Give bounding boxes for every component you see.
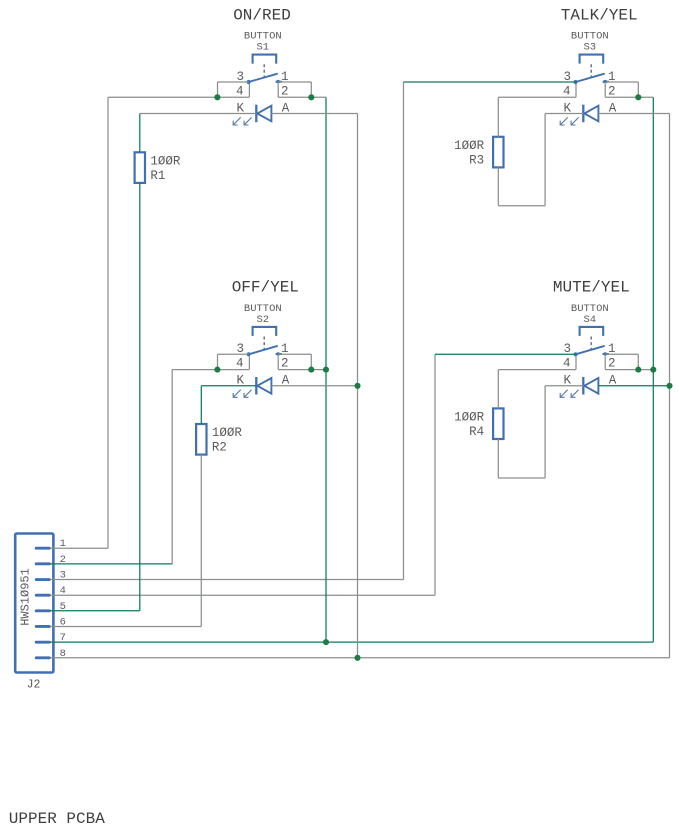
wire S4 pin3 long lead <box>435 353 576 355</box>
wire S2 pin4 stub <box>248 356 250 369</box>
wire S2 pin1 drop <box>310 354 312 369</box>
wire S4 pin1 drop <box>637 354 639 369</box>
wire S1 pin2 stub <box>277 84 279 97</box>
resistor R2 body <box>196 424 206 455</box>
svg-text:2: 2 <box>281 84 289 98</box>
svg-text:S3: S3 <box>583 42 596 54</box>
wire S3 LED anode row <box>598 113 669 115</box>
svg-text:2: 2 <box>608 84 616 98</box>
connector J2 pin 1 bar <box>36 547 49 550</box>
junction anode riser at J2 pin8 row <box>354 655 360 661</box>
svg-text:R2: R2 <box>212 441 227 455</box>
svg-text:S4: S4 <box>583 314 596 326</box>
wire S4 LED anode row <box>598 385 669 387</box>
svg-text:1ØØR: 1ØØR <box>454 139 485 153</box>
wire S3 pin1 drop <box>637 82 639 97</box>
LED of S4 (MUTE/YEL) <box>560 377 598 397</box>
svg-text:HWS1Ø951: HWS1Ø951 <box>19 568 33 626</box>
connector J2 pin 2 bar <box>36 562 49 565</box>
svg-text:R4: R4 <box>469 425 484 439</box>
pushbutton switch S4 <box>574 327 609 357</box>
wire J2 pin4 to riser <box>50 594 435 596</box>
pushbutton switch S3 <box>574 55 609 85</box>
junction S1 pins3-4 <box>214 94 220 100</box>
wire S3 pin3 long lead <box>404 81 576 83</box>
wire S2 LED anode row <box>271 385 357 387</box>
wire J2 pin1 to riser <box>50 547 108 549</box>
wire S2 pin1 lead <box>278 353 311 355</box>
connector J2 pin 5 bar <box>36 609 49 612</box>
wire S4 pin4 stub <box>575 356 577 369</box>
resistor R4 body <box>493 408 503 439</box>
svg-text:R1: R1 <box>150 169 165 183</box>
svg-text:TALK/YEL: TALK/YEL <box>561 6 638 24</box>
svg-text:R3: R3 <box>469 154 484 168</box>
wire J2 pin7 bus <box>50 641 653 643</box>
wire S1 pins1-2 row <box>278 96 326 98</box>
svg-text:J2: J2 <box>27 679 41 692</box>
wire J2 pin3 to riser <box>50 579 404 581</box>
wire R4 top lead <box>497 370 499 409</box>
wire S3 LED cathode row <box>545 113 583 115</box>
wire S4 cathode riser <box>544 386 546 478</box>
svg-text:1ØØR: 1ØØR <box>454 411 485 425</box>
wire S2 LED cathode row <box>201 385 256 387</box>
wire S2 pin3 drop <box>217 354 219 369</box>
wire S2 pin3 lead <box>218 353 249 355</box>
wire riser x140 up to R1 <box>139 183 141 611</box>
svg-text:1ØØR: 1ØØR <box>150 154 181 168</box>
wire S1 pin3 lead <box>218 81 249 83</box>
junction S2 row to bus x326 <box>323 367 329 373</box>
wire S1 pin4 stub <box>248 84 250 97</box>
wire J2 pin5 to riser <box>50 610 140 612</box>
svg-text:4: 4 <box>236 357 244 371</box>
pushbutton switch S2 <box>247 327 282 357</box>
wire riser x201 up to R2 <box>200 455 202 627</box>
junction S2 pins3-4 <box>214 367 220 373</box>
wire S1 junction row left <box>108 96 249 98</box>
wire S4 pins1-2 row <box>605 369 653 371</box>
junction S2 anode to riser <box>354 383 360 389</box>
wire S1 pin1 lead <box>278 81 311 83</box>
connector J2 pin 6 bar <box>36 625 49 628</box>
svg-text:4: 4 <box>563 357 571 371</box>
wire riser x403 up to S3 row <box>403 82 405 580</box>
wire R3 bottom lead <box>497 167 499 205</box>
wire anode riser x357 <box>357 114 359 658</box>
wire riser x435 up to S4 row <box>434 354 436 595</box>
wire J2 pin6 to riser <box>50 626 201 628</box>
wire S2 pins1-2 row <box>278 369 326 371</box>
wire S3 cathode riser <box>544 114 546 206</box>
svg-text:4: 4 <box>563 84 571 98</box>
svg-text:UPPER PCBA: UPPER PCBA <box>9 810 105 828</box>
LED of S3 (TALK/YEL) <box>560 105 598 125</box>
wire S3 pin2 stub <box>604 84 606 97</box>
junction S1 pins1-2 <box>308 94 314 100</box>
connector J2 pin 8 bar <box>36 656 49 659</box>
resistor R3 body <box>493 137 503 168</box>
svg-text:1ØØR: 1ØØR <box>212 426 243 440</box>
wire R4 bottom lead <box>497 439 499 478</box>
junction bus x326 at J2 pin7 row <box>323 639 329 645</box>
wire R4 bottom row <box>498 477 545 479</box>
wire S3 pin4 stub <box>575 84 577 97</box>
resistor R1 body <box>135 152 145 183</box>
pushbutton switch S1 <box>247 55 282 85</box>
svg-text:4: 4 <box>236 84 244 98</box>
svg-text:2: 2 <box>281 357 289 371</box>
wire S4 pin4 row to R4 <box>498 369 576 371</box>
junction S4 pins1-2 <box>635 367 641 373</box>
junction S4 anode to riser <box>666 383 672 389</box>
LED of S1 (ON/RED) <box>233 105 271 125</box>
wire J2 pin8 bus <box>50 657 670 659</box>
connector J2 pin 7 bar <box>36 641 49 644</box>
wire S1 LED anode row <box>271 113 357 115</box>
wire R1 top lead <box>139 114 141 153</box>
wire S2 pin2 stub <box>277 356 279 369</box>
wire S4 pin1 lead <box>605 353 638 355</box>
wire S4 pin2 stub <box>604 356 606 369</box>
svg-text:2: 2 <box>608 357 616 371</box>
wire R3 bottom row <box>498 205 545 207</box>
wire R3 top lead <box>497 97 499 137</box>
junction S2 pins1-2 <box>308 367 314 373</box>
svg-text:ON/RED: ON/RED <box>233 6 291 24</box>
wire bus riser x326 <box>325 97 327 642</box>
svg-text:MUTE/YEL: MUTE/YEL <box>553 278 630 296</box>
svg-text:S1: S1 <box>256 42 269 54</box>
svg-text:OFF/YEL: OFF/YEL <box>232 278 299 296</box>
wire riser x172 up to S2 row <box>171 370 173 564</box>
connector J2 body <box>15 534 53 673</box>
wire S3 pins1-2 row <box>605 96 653 98</box>
junction S3 pins1-2 <box>635 94 641 100</box>
wire S1 pin3 drop <box>217 82 219 97</box>
wire S2 junction row left <box>172 369 249 371</box>
LED of S2 (OFF/YEL) <box>233 377 271 397</box>
wire R2 top lead <box>200 386 202 424</box>
junction S4 row to bus x653 <box>650 367 656 373</box>
wire anode riser x670 <box>669 114 671 658</box>
wire S1 pin1 drop <box>310 82 312 97</box>
wire S3 pin4 row to R3 <box>498 96 576 98</box>
svg-text:S2: S2 <box>256 314 269 326</box>
connector J2 pin 4 bar <box>36 594 49 597</box>
connector J2 pin 3 bar <box>36 578 49 581</box>
wire S4 LED cathode row <box>545 385 583 387</box>
wire S1 LED cathode row <box>140 113 256 115</box>
wire S3 pin1 lead <box>605 81 638 83</box>
wire J2 pin2 to riser <box>50 563 172 565</box>
wire riser x108 up to S1 row <box>107 97 109 548</box>
wire bus riser x653 <box>652 97 654 642</box>
